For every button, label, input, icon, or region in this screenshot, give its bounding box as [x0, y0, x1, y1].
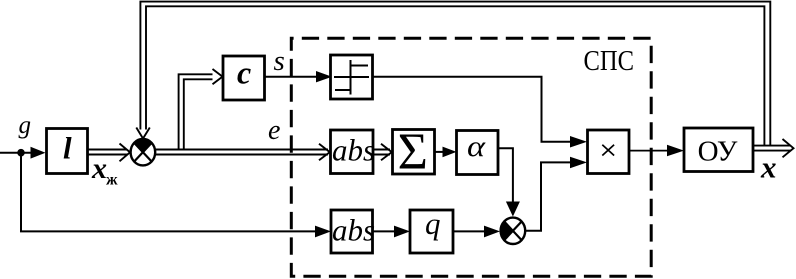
arrowhead output x — [783, 139, 794, 157]
svg-text:x: x — [91, 152, 107, 185]
wire output double line from OU block — [753, 146, 791, 151]
svg-text:СПС: СПС — [584, 45, 635, 77]
block sigma — [393, 130, 435, 175]
summer circle (comparison element) — [131, 139, 156, 165]
multiplier circle — [501, 218, 526, 244]
svg-text:ОУ: ОУ — [698, 136, 738, 168]
node g (dot) — [17, 149, 25, 157]
block c — [223, 56, 265, 100]
svg-text:ж: ж — [106, 172, 118, 189]
block abs (bottom row) — [331, 210, 373, 253]
block l — [47, 129, 88, 174]
wire c to relay — [265, 76, 318, 78]
arrowhead into relay — [316, 71, 332, 82]
svg-text:s: s — [274, 45, 285, 77]
wire sigma to alpha — [435, 151, 444, 153]
wire x-box to OU — [629, 150, 668, 152]
svg-text:c: c — [237, 55, 251, 91]
arrowhead into x-box lower — [570, 157, 587, 169]
arrowhead into multiplier circle left — [484, 226, 500, 238]
wire abs to q — [373, 230, 396, 232]
arrowhead into summer left — [120, 144, 131, 162]
arrowhead into summer top — [136, 128, 150, 139]
svg-text:α: α — [467, 130, 486, 163]
arrowhead into alpha — [443, 147, 457, 158]
svg-text:abs: abs — [332, 212, 375, 247]
arrowhead into abs mid — [319, 144, 330, 161]
wire feedback double line from output to summer — [140, 2, 770, 146]
wire from node g down to bottom row — [21, 153, 316, 232]
wire branch up to block c (double) — [179, 74, 213, 150]
arrowhead into c — [213, 69, 223, 84]
block OU — [684, 128, 753, 172]
svg-text:e: e — [268, 115, 280, 146]
svg-text:l: l — [63, 130, 72, 165]
block abs (middle row) — [331, 130, 374, 174]
wire summer to abs (double, labeled e) — [156, 150, 328, 155]
dashed box SPS — [291, 38, 651, 276]
relay block (sign element) — [331, 55, 373, 99]
svg-text:g: g — [19, 112, 32, 139]
wire l to summer (double) — [88, 150, 127, 155]
svg-text:x: x — [760, 150, 777, 185]
wire q to multiplier circle — [453, 230, 485, 232]
wire alpha down to multiplier circle — [498, 148, 513, 202]
svg-text:q: q — [425, 206, 441, 241]
arrowhead down into multiplier circle — [506, 202, 520, 217]
block multiplier x — [588, 130, 630, 174]
arrowhead into q — [394, 226, 410, 238]
arrowhead into x-box upper — [570, 136, 587, 148]
block alpha — [457, 131, 499, 175]
block q — [410, 210, 453, 253]
wire input g — [0, 152, 32, 154]
wire multiplier circle up to x-box (lower input) — [525, 162, 571, 230]
svg-text:abs: abs — [332, 133, 375, 168]
arrowhead into OU — [667, 145, 684, 157]
svg-text:Σ: Σ — [398, 124, 428, 181]
wire abs to sigma (double) — [373, 150, 390, 155]
wire relay to multiplier box (upper input) — [373, 77, 572, 142]
arrowhead into block l — [31, 147, 46, 159]
arrowhead into abs bottom — [315, 226, 331, 238]
arrowhead into sigma — [381, 144, 392, 161]
